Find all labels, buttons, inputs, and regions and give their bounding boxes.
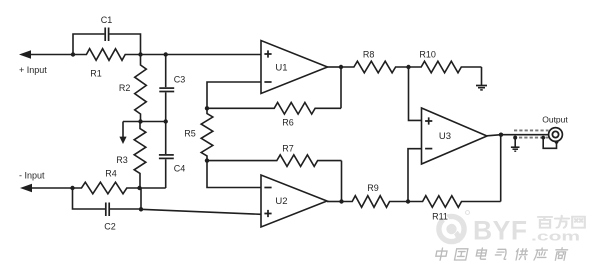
op-amp U1 [261,41,328,94]
shield dashed line upper [514,129,549,131]
watermark logo [439,211,470,242]
capacitor C1 [105,28,108,42]
node U2 output junction [339,199,343,203]
svg-text:U1: U1 [275,63,287,74]
svg-text:R6: R6 [282,118,294,128]
wire C1 left branch [73,34,104,55]
resistor R1 [73,49,141,61]
wire U3- input [408,149,422,202]
wire R4 node to C4 [140,187,166,189]
svg-text:R8: R8 [363,50,375,60]
resistor R5 [201,108,213,160]
svg-text:C4: C4 [174,164,186,174]
wire C2 node to U2+ [141,209,261,214]
node R1/R2/C1 junction [138,52,142,56]
wire C1 right branch [109,34,140,55]
- input arrow [20,184,32,193]
svg-text:C1: C1 [101,15,113,25]
node output junction [499,133,503,137]
wire R11 to output node [500,135,502,202]
node R9/R11/U3- junction [406,199,410,203]
node C2/U2+ junction [139,207,143,211]
svg-text:- Input: - Input [19,171,45,181]
wire U3+ input [409,67,422,120]
svg-text:R11: R11 [432,212,448,222]
svg-text:U3: U3 [439,131,451,142]
wire rail to U1+ [166,54,261,56]
wire U3 output [487,135,553,136]
resistor R11 [408,196,501,208]
capacitor C3 [159,55,174,122]
node hook left [541,136,545,140]
node R2/R3 junction [138,119,142,123]
wire -input rail [31,187,73,189]
wire C2 left branch [73,188,106,209]
wire mid ground rail [123,121,166,123]
node R5/R7/U2- junction [205,158,209,162]
ground symbol (R10) [476,86,487,90]
svg-text:Output: Output [542,114,568,124]
svg-text:BYF: BYF [473,216,528,246]
watermark .com text [531,229,580,244]
op-amp U3 [422,108,488,164]
node C3/C4 junction [164,119,168,123]
svg-text:R1: R1 [90,69,102,79]
resistor R6 [207,103,341,115]
wire U1 output [328,66,342,68]
wire U2- input [207,161,261,188]
node -input/C2 junction [70,186,74,190]
wire U1- input [207,82,261,108]
svg-text:R4: R4 [105,169,117,179]
node C3 top junction [164,52,168,56]
svg-text:R10: R10 [419,49,436,59]
wire R6 to U1 output [340,67,342,108]
capacitor C2 [106,203,109,217]
node U1 output junction [339,65,343,69]
+ input arrow [19,50,31,59]
svg-text:R9: R9 [367,183,379,193]
wire shield ground [514,138,516,147]
output connector [549,128,563,142]
shield dashed line lower [519,137,549,139]
node +input/C1 junction [71,52,75,56]
resistor R3 [134,122,146,189]
watermark chinese big text 百方网 [538,216,585,228]
svg-text:R3: R3 [116,155,128,165]
wire R7 to U2 output [341,161,343,202]
svg-text:C2: C2 [104,222,116,232]
node shield ground tap [513,136,517,140]
ground arrow (signal ground) [119,122,126,145]
wire R10 to ground [481,67,483,85]
resistor R2 [135,55,147,122]
node hook right [555,140,559,144]
svg-text:U2: U2 [275,196,287,207]
op-amp U2 [261,175,327,227]
svg-text:R2: R2 [119,83,131,93]
wire C2 right branch [110,188,141,209]
svg-text:C3: C3 [174,75,186,85]
resistor R7 [207,155,342,167]
svg-text:+ Input: + Input [19,65,47,75]
svg-text:.com: .com [531,229,580,244]
wire U2 output [327,201,342,203]
svg-text:R7: R7 [282,143,294,153]
svg-text:R5: R5 [184,129,196,139]
resistor R9 [342,196,409,208]
capacitor C4 [159,122,174,189]
node R8/R10/U3+ junction [406,65,410,69]
wire shield hook [543,138,556,149]
resistor R10 [409,61,482,73]
wire +input rail [30,54,73,56]
resistor R8 [341,61,409,73]
node R5/R6/U1- junction [205,106,209,110]
watermark chinese small text 中国电气供应商 [435,248,568,260]
wire rail to C3 [141,54,166,56]
ground symbol (shield) [511,147,520,151]
resistor R4 [73,182,140,194]
node R4/R3/C2 junction [137,186,141,190]
